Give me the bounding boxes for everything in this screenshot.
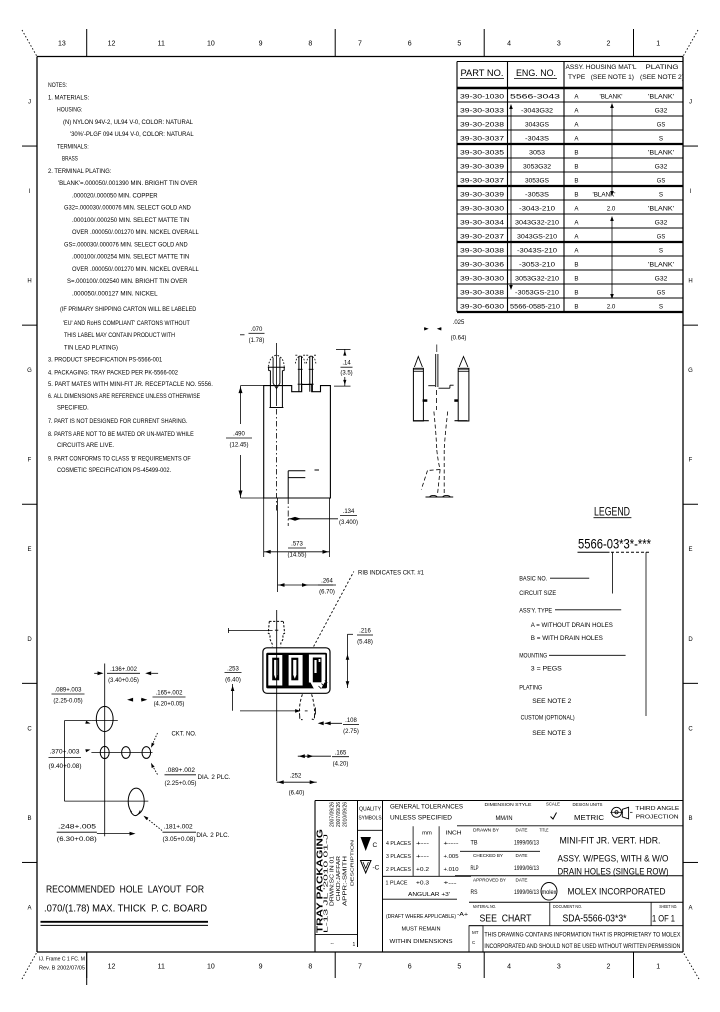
- svg-text:G: G: [27, 368, 32, 374]
- svg-text:2. TERMINAL PLATING:: 2. TERMINAL PLATING:: [48, 168, 112, 175]
- svg-text:'BLANK': 'BLANK': [648, 94, 674, 101]
- svg-text:(0.64): (0.64): [451, 336, 467, 342]
- svg-text:F: F: [28, 458, 32, 464]
- svg-text:-3053GS-210: -3053GS-210: [515, 290, 560, 297]
- svg-text:13: 13: [58, 41, 66, 48]
- svg-text:10: 10: [207, 41, 215, 48]
- svg-text:G32: G32: [655, 220, 668, 227]
- svg-text:SDA-5566-03*3*: SDA-5566-03*3*: [563, 914, 627, 925]
- svg-text:39-30-6030: 39-30-6030: [460, 304, 505, 311]
- svg-text:.248+.005: .248+.005: [58, 824, 97, 830]
- svg-text:DRAWN BY: DRAWN BY: [473, 828, 499, 833]
- svg-text:2007/09/26: 2007/09/26: [330, 802, 336, 827]
- svg-text:(5.48): (5.48): [357, 640, 373, 646]
- svg-text:.000020/.000050 MIN. COPPER: .000020/.000050 MIN. COPPER: [72, 193, 158, 200]
- svg-text:.070/(1.78) MAX. THICK P. C.: .070/(1.78) MAX. THICK P. C. BOARD: [44, 904, 207, 915]
- svg-text:.252: .252: [290, 773, 302, 779]
- svg-text:(6.40): (6.40): [289, 790, 305, 796]
- svg-text:3: 3: [557, 964, 561, 971]
- svg-text:GENERAL TOLERANCES: GENERAL TOLERANCES: [390, 804, 463, 811]
- svg-text:1 OF 1: 1 OF 1: [652, 914, 675, 924]
- svg-text:39-30-2038: 39-30-2038: [460, 122, 505, 129]
- svg-text:SHEET NO.: SHEET NO.: [659, 904, 677, 909]
- svg-text:+.010: +.010: [444, 867, 459, 873]
- svg-text:39-30-3038: 39-30-3038: [460, 248, 505, 255]
- svg-text:OVER .000050/.001270 MIN. NICK: OVER .000050/.001270 MIN. NICKEL OVERALL: [72, 229, 199, 236]
- svg-text:2.0: 2.0: [607, 304, 616, 311]
- svg-text:SEE CHART: SEE CHART: [480, 914, 532, 925]
- svg-text:S: S: [659, 248, 663, 255]
- svg-text:IJ. Frame C 1 FC. M: IJ. Frame C 1 FC. M: [39, 957, 85, 963]
- svg-text:.253: .253: [227, 666, 239, 672]
- svg-text:DIA. 2 PLC.: DIA. 2 PLC.: [198, 775, 231, 781]
- svg-text:UNLESS SPECIFIED: UNLESS SPECIFIED: [390, 815, 453, 822]
- svg-text:PLATING: PLATING: [646, 65, 679, 71]
- svg-text:G32: G32: [655, 276, 668, 283]
- svg-text:F: F: [689, 458, 693, 464]
- svg-text:(DRAFT WHERE APPLICABLE): (DRAFT WHERE APPLICABLE): [386, 914, 456, 920]
- svg-text:.14: .14: [342, 361, 351, 367]
- svg-text:.108: .108: [345, 718, 357, 724]
- svg-text:PART NO.: PART NO.: [461, 68, 504, 79]
- svg-text:MINI-FIT JR. VERT. HDR.: MINI-FIT JR. VERT. HDR.: [560, 836, 661, 847]
- svg-text:A: A: [688, 905, 692, 911]
- svg-text:(3.400): (3.400): [339, 520, 358, 526]
- svg-text:B: B: [688, 816, 692, 822]
- svg-text:.490: .490: [233, 432, 245, 438]
- svg-text:DIA. 2 PLC.: DIA. 2 PLC.: [196, 833, 229, 839]
- svg-text:THIS LABEL MAY CONTAIN PRODUCT: THIS LABEL MAY CONTAIN PRODUCT WITH: [64, 332, 175, 339]
- svg-text:BASIC NO.: BASIC NO.: [519, 576, 547, 583]
- svg-text:ASSY. HOUSING MAT'L: ASSY. HOUSING MAT'L: [566, 65, 638, 71]
- svg-text:B: B: [574, 150, 578, 157]
- svg-text:C: C: [688, 726, 693, 732]
- svg-text:GS: GS: [657, 234, 665, 241]
- svg-text:LEGEND: LEGEND: [594, 507, 630, 519]
- svg-text:39-30-3033: 39-30-3033: [460, 108, 505, 115]
- svg-text:SCALE: SCALE: [546, 802, 560, 807]
- svg-text:9: 9: [259, 964, 263, 971]
- svg-text:.165: .165: [335, 750, 347, 756]
- svg-text:RIB INDICATES CKT. #1: RIB INDICATES CKT. #1: [358, 570, 425, 577]
- svg-text:B: B: [27, 816, 31, 822]
- svg-text:39-30-3035: 39-30-3035: [460, 150, 505, 157]
- svg-text:4: 4: [507, 964, 511, 971]
- svg-text:D: D: [27, 637, 32, 643]
- svg-text:39-30-2037: 39-30-2037: [460, 234, 505, 241]
- svg-text:METRIC: METRIC: [574, 815, 604, 822]
- svg-text:2.0: 2.0: [607, 206, 616, 213]
- svg-text:A: A: [27, 905, 31, 911]
- svg-text:WITHIN DIMENSIONS: WITHIN DIMENSIONS: [390, 939, 453, 945]
- svg-text:molex: molex: [542, 889, 558, 896]
- svg-text:11: 11: [158, 41, 165, 48]
- svg-text:2007/09/26: 2007/09/26: [336, 802, 342, 827]
- svg-text:NOTES:: NOTES:: [48, 82, 67, 89]
- svg-text:3043GS: 3043GS: [525, 122, 549, 129]
- svg-text:-3043S: -3043S: [525, 136, 549, 143]
- svg-text:5566-0585-210: 5566-0585-210: [510, 304, 561, 311]
- svg-text:B: B: [574, 262, 578, 269]
- svg-text:39-30-3034: 39-30-3034: [460, 220, 505, 227]
- svg-text:DRAIN HOLES (SINGLE ROW): DRAIN HOLES (SINGLE ROW): [558, 867, 669, 878]
- svg-text:-3043-210: -3043-210: [519, 206, 556, 213]
- svg-text:B: B: [574, 304, 578, 311]
- svg-text:+0.2: +0.2: [416, 867, 429, 873]
- svg-text:1999/06/13: 1999/06/13: [514, 840, 540, 846]
- svg-text:A = WITHOUT DRAIN HOLES: A = WITHOUT DRAIN HOLES: [531, 622, 613, 629]
- svg-text:ASSY. W/PEGS, WITH & W/O: ASSY. W/PEGS, WITH & W/O: [558, 854, 669, 865]
- svg-text:SYMBOLS: SYMBOLS: [359, 816, 382, 822]
- svg-text:3053G32-210: 3053G32-210: [515, 276, 560, 283]
- svg-text:9. PART CONFORMS TO CLASS 'B': 9. PART CONFORMS TO CLASS 'B' REQUIREMEN…: [48, 456, 191, 463]
- svg-text:.025: .025: [453, 320, 465, 326]
- svg-text:5566-03*3*-***: 5566-03*3*-***: [578, 536, 651, 552]
- svg-text:3 = PEGS: 3 = PEGS: [531, 666, 562, 673]
- svg-text:THIRD ANGLE: THIRD ANGLE: [635, 806, 679, 812]
- svg-text:GS: GS: [657, 290, 665, 297]
- svg-text:+0.3: +0.3: [416, 881, 429, 887]
- svg-text:COSMETIC SPECIFICATION PS-4549: COSMETIC SPECIFICATION PS-45499-002.: [57, 467, 171, 474]
- svg-text:2: 2: [607, 41, 611, 48]
- svg-text:'BLANK': 'BLANK': [648, 262, 674, 269]
- svg-text:'BLANK': 'BLANK': [648, 206, 674, 213]
- svg-text:5566-3043: 5566-3043: [510, 94, 561, 101]
- svg-text:11: 11: [158, 964, 165, 971]
- svg-text:S=.000100/.002540 MIN. BRIGHT: S=.000100/.002540 MIN. BRIGHT TIN OVER: [67, 278, 188, 285]
- svg-text:HOUSING:: HOUSING:: [57, 107, 83, 114]
- svg-text:SEE NOTE 3: SEE NOTE 3: [532, 730, 572, 737]
- svg-text:3053: 3053: [529, 150, 546, 157]
- svg-text:-3053-210: -3053-210: [519, 262, 556, 269]
- svg-text:TITLE: TITLE: [540, 828, 549, 833]
- svg-text:(3.5): (3.5): [340, 371, 352, 377]
- svg-text:39-30-3039: 39-30-3039: [460, 164, 505, 171]
- svg-text:G32=.000030/.000076 MIN. SELEC: G32=.000030/.000076 MIN. SELECT GOLD AND: [64, 205, 191, 212]
- svg-text:6. ALL DIMENSIONS ARE REFERENC: 6. ALL DIMENSIONS ARE REFERENCE UNLESS O…: [48, 393, 200, 400]
- svg-text:1: 1: [656, 41, 660, 48]
- svg-text:S: S: [659, 304, 663, 311]
- svg-text:+----: +----: [444, 841, 459, 847]
- svg-text:INCH: INCH: [446, 831, 462, 837]
- svg-text:B = WITH DRAIN HOLES: B = WITH DRAIN HOLES: [531, 635, 603, 642]
- svg-text:1: 1: [656, 964, 660, 971]
- svg-text:ANGULAR +3': ANGULAR +3': [408, 892, 450, 898]
- svg-text:2010/09/26: 2010/09/26: [343, 802, 349, 827]
- svg-text:(N) NYLON 94V-2, UL94 V-0, COL: (N) NYLON 94V-2, UL94 V-0, COLOR: NATURA…: [63, 119, 193, 126]
- svg-text:CHKD:JAFFAR: CHKD:JAFFAR: [336, 856, 342, 901]
- svg-text:B: B: [574, 192, 578, 199]
- svg-text:DATE: DATE: [516, 828, 528, 833]
- svg-text:PLATING: PLATING: [519, 685, 542, 692]
- svg-text:7: 7: [358, 964, 362, 971]
- svg-text:ENG. NO.: ENG. NO.: [516, 68, 556, 79]
- svg-text:-3043G32: -3043G32: [521, 108, 554, 115]
- svg-text:GS: GS: [657, 122, 665, 129]
- svg-text:+---: +---: [444, 881, 457, 887]
- svg-text:39-30-3030: 39-30-3030: [460, 206, 505, 213]
- svg-text:5: 5: [457, 41, 461, 48]
- svg-text:MUST REMAIN: MUST REMAIN: [402, 927, 441, 933]
- svg-text:APPROVED BY: APPROVED BY: [473, 878, 506, 883]
- svg-text:B: B: [574, 290, 578, 297]
- svg-text:B: B: [574, 178, 578, 185]
- svg-text:S: S: [659, 136, 663, 143]
- svg-text:.573: .573: [291, 542, 303, 548]
- svg-text:-3053S: -3053S: [525, 192, 549, 199]
- svg-text:.264: .264: [321, 579, 333, 585]
- svg-text:(14.55): (14.55): [287, 553, 306, 559]
- svg-text:.181+.002: .181+.002: [164, 824, 194, 830]
- svg-text:1: 1: [353, 942, 356, 948]
- svg-text:TERMINALS:: TERMINALS:: [57, 144, 89, 151]
- svg-text:(4.20): (4.20): [333, 761, 349, 767]
- svg-text:39-30-3030: 39-30-3030: [460, 276, 505, 283]
- svg-text:MT: MT: [472, 930, 479, 935]
- svg-text:GS: GS: [657, 178, 665, 185]
- svg-text:mm: mm: [422, 831, 432, 837]
- svg-text:-A+: -A+: [457, 912, 468, 918]
- svg-text:B: B: [574, 276, 578, 283]
- svg-text:DOCUMENT NO.: DOCUMENT NO.: [553, 904, 582, 909]
- svg-text:3053GS: 3053GS: [525, 178, 549, 185]
- svg-text:(9.40+0.08): (9.40+0.08): [49, 764, 82, 770]
- svg-text:1 PLACE: 1 PLACE: [386, 881, 408, 887]
- svg-text:12: 12: [108, 964, 116, 971]
- svg-text:.000100/.000254 MIN. SELECT MA: .000100/.000254 MIN. SELECT MATTE TIN: [72, 254, 190, 261]
- svg-text:TYPE (SEE NOTE 1): TYPE (SEE NOTE 1): [568, 75, 634, 81]
- svg-text:PROJECTION: PROJECTION: [636, 815, 679, 821]
- svg-text:OVER .000050/.001270 MIN. NICK: OVER .000050/.001270 MIN. NICKEL OVERALL: [72, 266, 199, 273]
- svg-text:SEE NOTE 2: SEE NOTE 2: [532, 698, 572, 705]
- svg-text:.070: .070: [251, 327, 263, 333]
- svg-text:(12.45): (12.45): [229, 443, 248, 449]
- svg-text:3 PLACES: 3 PLACES: [386, 854, 411, 860]
- svg-text:'30%'-PLGF 094 UL94 V-0, COLOR: '30%'-PLGF 094 UL94 V-0, COLOR: NATURAL: [70, 131, 194, 138]
- svg-text:.136+.002: .136+.002: [110, 667, 138, 673]
- svg-text:1999/06/13: 1999/06/13: [514, 866, 540, 872]
- svg-text:RLP: RLP: [471, 865, 479, 872]
- svg-text:GS=.000030/.000076 MIN. SELECT: GS=.000030/.000076 MIN. SELECT GOLD AND: [64, 242, 188, 249]
- svg-text:MATERIAL NO.: MATERIAL NO.: [473, 904, 496, 909]
- svg-text:'EU' AND RoHS COMPLIANT' CARTO: 'EU' AND RoHS COMPLIANT' CARTONS WITHOUT: [63, 320, 190, 327]
- svg-text:3053G32: 3053G32: [523, 164, 552, 171]
- svg-text:39-30-3037: 39-30-3037: [460, 178, 505, 185]
- svg-text:TIN LEAD PLATING): TIN LEAD PLATING): [64, 345, 118, 352]
- svg-text:5. PART MATES WITH MINI-FIT JR: 5. PART MATES WITH MINI-FIT JR. RECEPTAC…: [48, 381, 213, 388]
- svg-text:(2.25+0.05): (2.25+0.05): [165, 781, 197, 787]
- svg-text:(6.70): (6.70): [319, 590, 335, 596]
- svg-text:+---: +---: [416, 854, 429, 860]
- svg-text:4. PACKAGING: TRAY PACKED PER: 4. PACKAGING: TRAY PACKED PER PK-5566-00…: [48, 370, 178, 377]
- svg-text:S: S: [659, 192, 663, 199]
- svg-text:H: H: [27, 279, 31, 285]
- svg-text:3. PRODUCT SPECIFICATION PS-55: 3. PRODUCT SPECIFICATION PS-5566-001: [48, 357, 163, 364]
- svg-text:TB: TB: [471, 839, 478, 846]
- svg-text:6: 6: [408, 964, 412, 971]
- svg-text:39-30-3037: 39-30-3037: [460, 136, 505, 143]
- svg-text:Rev. B 2002/07/05: Rev. B 2002/07/05: [39, 966, 85, 972]
- svg-text:C: C: [373, 842, 378, 849]
- svg-text:J: J: [689, 99, 692, 105]
- svg-text:'BLANK': 'BLANK': [600, 94, 623, 101]
- svg-text:B: B: [574, 164, 578, 171]
- svg-text:G: G: [688, 368, 693, 374]
- svg-text:SPECIFIED.: SPECIFIED.: [57, 405, 89, 412]
- svg-text:+.005: +.005: [444, 854, 459, 860]
- svg-text:3043GS-210: 3043GS-210: [517, 234, 558, 241]
- svg-text:2: 2: [607, 964, 611, 971]
- svg-text:39-30-3039: 39-30-3039: [460, 192, 505, 199]
- svg-text:APPR:-SMITH: APPR:-SMITH: [343, 856, 349, 906]
- svg-text:39-30-3038: 39-30-3038: [460, 290, 505, 297]
- svg-text:3043G32-210: 3043G32-210: [515, 220, 560, 227]
- svg-text:39-30-3036: 39-30-3036: [460, 262, 505, 269]
- svg-text:RS: RS: [471, 889, 479, 896]
- svg-text:2 PLACES: 2 PLACES: [386, 867, 411, 873]
- svg-text:CHECKED BY: CHECKED BY: [473, 853, 503, 858]
- svg-text:.089+.003: .089+.003: [55, 688, 83, 694]
- svg-text:DRWN:SC IN 01: DRWN:SC IN 01: [330, 856, 336, 906]
- svg-text:7: 7: [358, 41, 362, 48]
- svg-text:DATE: DATE: [516, 853, 528, 858]
- svg-text:8: 8: [308, 41, 312, 48]
- svg-text:E: E: [27, 547, 31, 553]
- svg-text:E: E: [688, 547, 692, 553]
- svg-text:.000100/.000250 MIN. SELECT MA: .000100/.000250 MIN. SELECT MATTE TIN: [72, 217, 190, 224]
- svg-text:.134: .134: [343, 509, 355, 515]
- svg-text:QUALITY: QUALITY: [359, 807, 381, 813]
- svg-text:INCORPORATED AND SHOULD NOT BE: INCORPORATED AND SHOULD NOT BE USED WITH…: [484, 944, 680, 950]
- svg-text:9: 9: [259, 41, 263, 48]
- svg-text:DESIGN UNITS: DESIGN UNITS: [573, 802, 603, 807]
- svg-text:12: 12: [108, 41, 116, 48]
- svg-text:.370+.003: .370+.003: [50, 750, 81, 756]
- svg-text:THIS DRAWING CONTAINS INFORMAT: THIS DRAWING CONTAINS INFORMATION THAT I…: [484, 933, 680, 939]
- svg-text:1999/06/13: 1999/06/13: [514, 890, 540, 896]
- svg-text:G32: G32: [655, 164, 668, 171]
- svg-text:'BLANK': 'BLANK': [648, 150, 674, 157]
- svg-text:(6.30+0.08): (6.30+0.08): [57, 837, 97, 843]
- svg-text:MM/IN: MM/IN: [496, 815, 513, 822]
- svg-text:-C: -C: [373, 865, 380, 872]
- svg-text:CKT. NO.: CKT. NO.: [172, 731, 197, 738]
- svg-text:H: H: [688, 279, 692, 285]
- svg-text:.000050/.000127 MIN. NICKEL: .000050/.000127 MIN. NICKEL: [72, 291, 158, 298]
- svg-text:6: 6: [408, 41, 412, 48]
- svg-text:MOLEX INCORPORATED: MOLEX INCORPORATED: [568, 887, 666, 898]
- svg-text:(6.40): (6.40): [225, 677, 241, 683]
- svg-text:+---: +---: [416, 841, 429, 847]
- svg-text:10: 10: [207, 964, 215, 971]
- svg-text:1. MATERIALS:: 1. MATERIALS:: [48, 95, 89, 102]
- svg-text:'BLANK'=.000050/.001390 MIN. B: 'BLANK'=.000050/.001390 MIN. BRIGHT TIN …: [58, 180, 198, 187]
- svg-text:G32: G32: [655, 108, 668, 115]
- svg-text:(2.25-0.05): (2.25-0.05): [53, 699, 82, 705]
- svg-text:(3.05+0.08): (3.05+0.08): [163, 837, 196, 843]
- svg-text:7. PART IS NOT DESIGNED FOR CU: 7. PART IS NOT DESIGNED FOR CURRENT SHAR…: [48, 418, 188, 425]
- svg-text:39-30-1030: 39-30-1030: [460, 94, 505, 101]
- svg-text:ASS'Y. TYPE: ASS'Y. TYPE: [519, 607, 552, 614]
- svg-text:RECOMMENDED HOLE LAYOUT FOR: RECOMMENDED HOLE LAYOUT FOR: [46, 885, 204, 896]
- svg-text:C: C: [27, 726, 32, 732]
- svg-text:MOUNTING: MOUNTING: [519, 653, 547, 660]
- svg-text:D: D: [688, 637, 693, 643]
- svg-text:8: 8: [308, 964, 312, 971]
- svg-text:3: 3: [557, 41, 561, 48]
- svg-text:-3043S-210: -3043S-210: [517, 248, 558, 255]
- svg-text:(1.78): (1.78): [249, 338, 265, 344]
- svg-text:.089+.002: .089+.002: [166, 768, 196, 774]
- svg-text:(SEE NOTE 2): (SEE NOTE 2): [640, 75, 684, 81]
- svg-text:.165+.002: .165+.002: [156, 691, 184, 697]
- svg-text:(3.40+0.05): (3.40+0.05): [108, 678, 139, 684]
- svg-text:(4.20+0.05): (4.20+0.05): [154, 702, 185, 708]
- svg-text:J: J: [28, 99, 31, 105]
- svg-text:8. PARTS ARE NOT TO BE MATED O: 8. PARTS ARE NOT TO BE MATED OR UN-MATED…: [48, 431, 194, 438]
- svg-text:4: 4: [507, 41, 511, 48]
- svg-text:BRASS: BRASS: [62, 156, 78, 163]
- svg-text:--: --: [331, 941, 335, 947]
- svg-text:(2.75): (2.75): [343, 729, 359, 735]
- svg-text:DIMENSION STYLE: DIMENSION STYLE: [485, 802, 532, 807]
- svg-text:CUSTOM (OPTIONAL): CUSTOM (OPTIONAL): [521, 715, 575, 722]
- svg-text:CIRCUITS ARE LIVE.: CIRCUITS ARE LIVE.: [57, 442, 114, 449]
- svg-text:DATE: DATE: [516, 878, 528, 883]
- svg-text:4 PLACES: 4 PLACES: [386, 841, 411, 847]
- svg-text:CIRCUIT SIZE: CIRCUIT SIZE: [519, 590, 556, 597]
- svg-text:DESCRIPTION: DESCRIPTION: [350, 840, 355, 886]
- svg-text:5: 5: [457, 964, 461, 971]
- svg-text:.216: .216: [359, 629, 371, 635]
- svg-text:(IF PRIMARY SHIPPING CARTON WI: (IF PRIMARY SHIPPING CARTON WILL BE LABE…: [60, 306, 197, 313]
